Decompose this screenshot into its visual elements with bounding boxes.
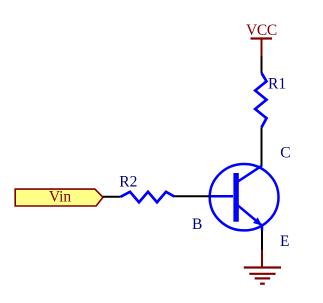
transistor Q1 (209, 164, 279, 231)
svg-text:B: B (192, 216, 202, 233)
wire Vin to R2 (103, 196, 121, 198)
wire VCC to R1 (261, 56, 263, 73)
svg-text:C: C (280, 145, 290, 162)
power rail VCC symbol (251, 39, 273, 57)
resistor R2 (121, 192, 175, 203)
svg-text:VCC: VCC (246, 22, 277, 39)
ground (244, 250, 281, 284)
wire emitter to ground (261, 231, 263, 251)
svg-text:E: E (280, 233, 289, 250)
svg-text:Vin: Vin (49, 188, 72, 205)
wire R1 to collector (261, 127, 263, 166)
wire R2 to base (174, 195, 209, 197)
svg-text:R2: R2 (119, 173, 137, 190)
resistor R1 (255, 73, 266, 127)
svg-text:R1: R1 (268, 76, 286, 93)
port Vin (15, 188, 103, 206)
